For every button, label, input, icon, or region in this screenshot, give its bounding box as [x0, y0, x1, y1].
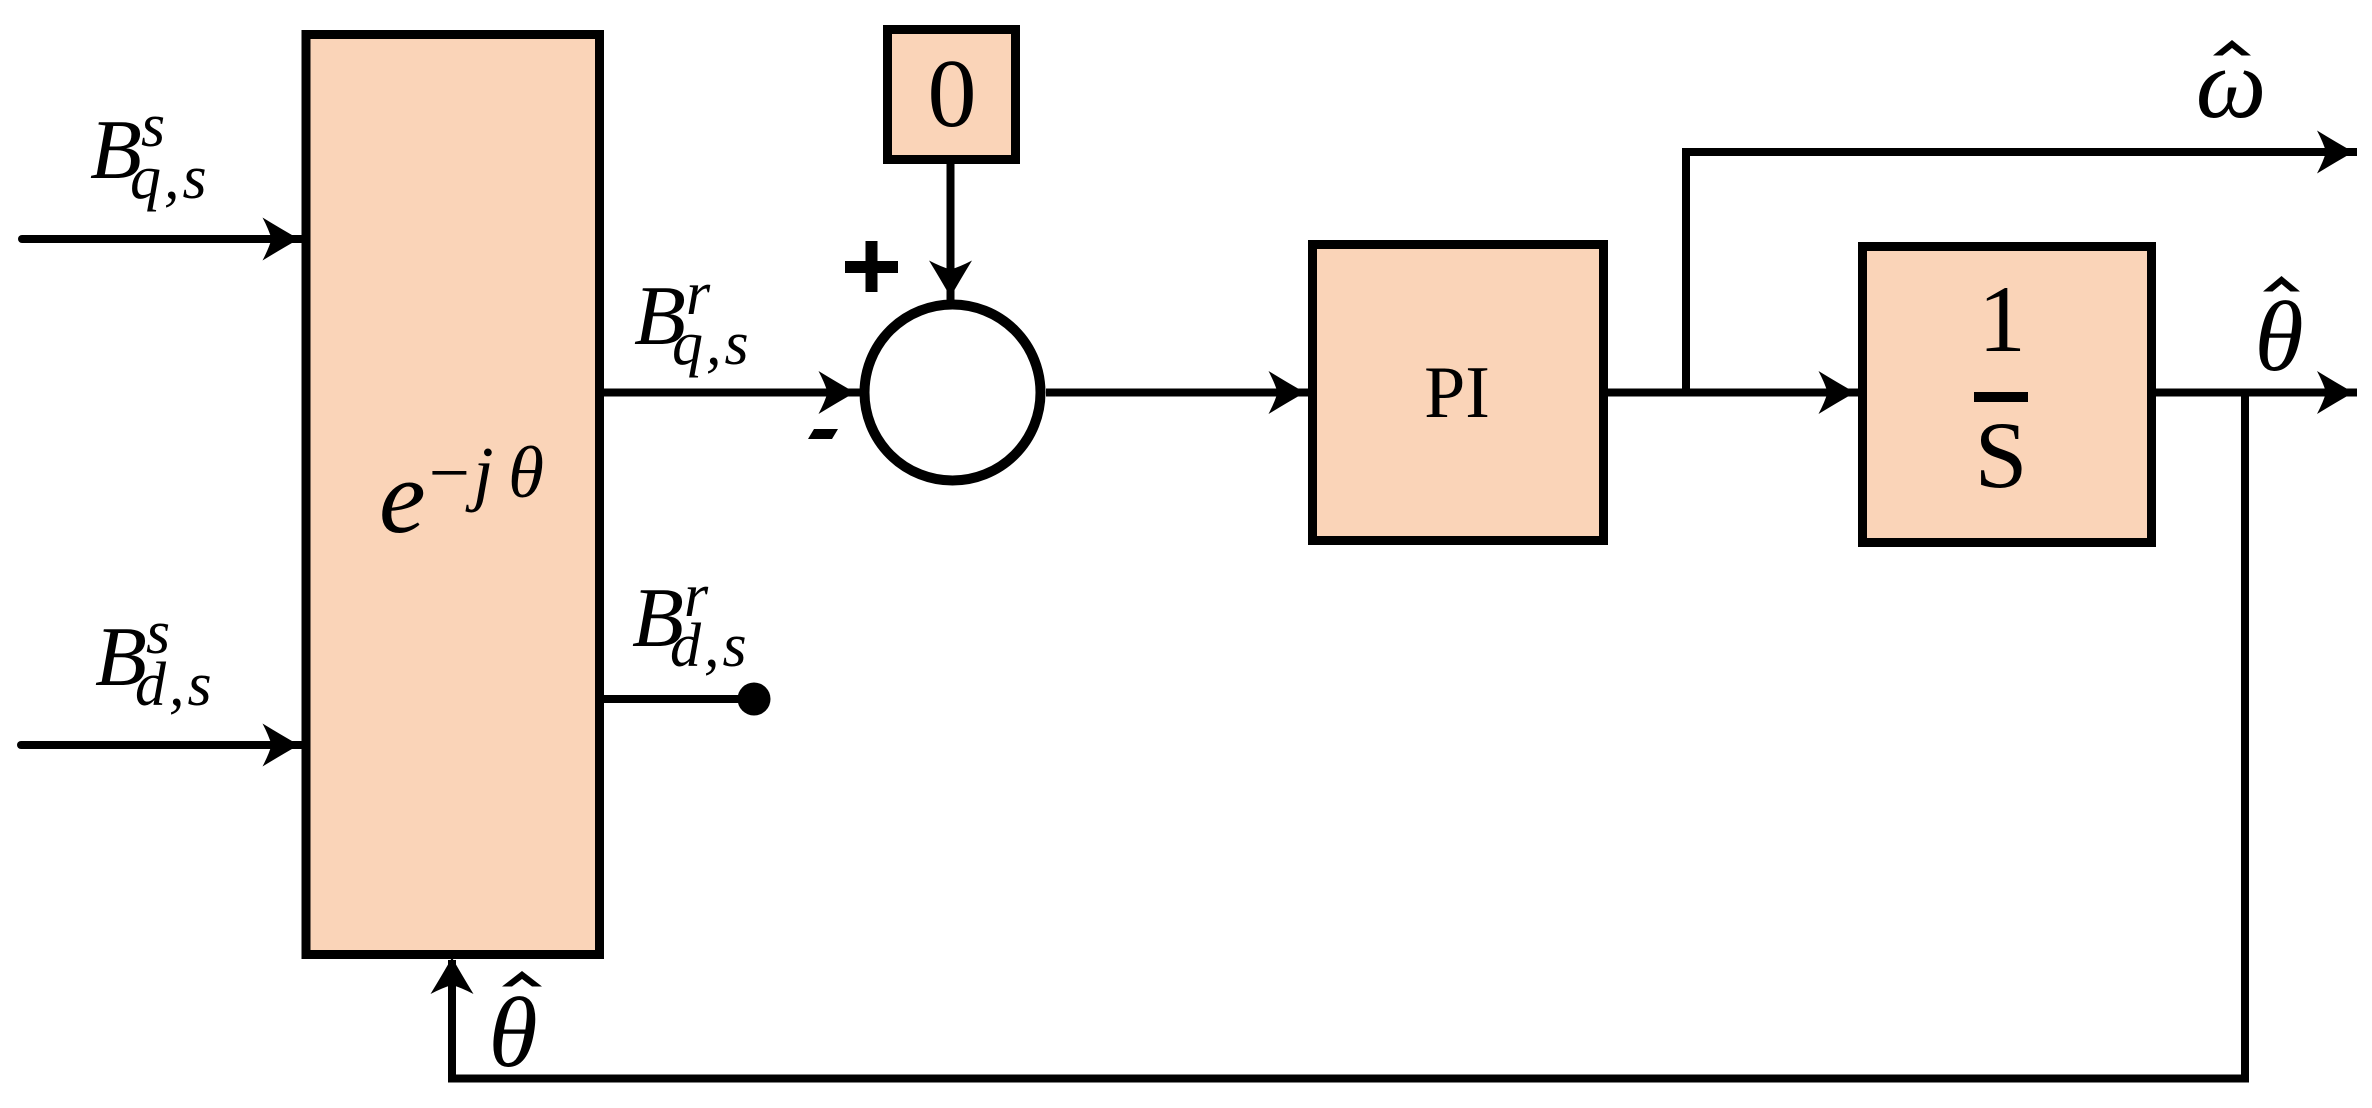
svg-text:q,s: q,s [130, 144, 210, 212]
svg-text:PI: PI [1424, 352, 1490, 434]
svg-text:e: e [379, 438, 426, 555]
svg-text:0: 0 [928, 40, 977, 148]
svg-text:d,s: d,s [135, 651, 215, 719]
svg-text:d,s: d,s [670, 612, 750, 680]
svg-text:1: 1 [1978, 266, 2026, 372]
svg-text:θ: θ [488, 977, 537, 1088]
svg-text:q,s: q,s [672, 310, 752, 378]
svg-text:−j θ: −j θ [424, 432, 544, 513]
svg-text:θ: θ [2254, 281, 2303, 392]
svg-text:S: S [1975, 402, 2028, 508]
